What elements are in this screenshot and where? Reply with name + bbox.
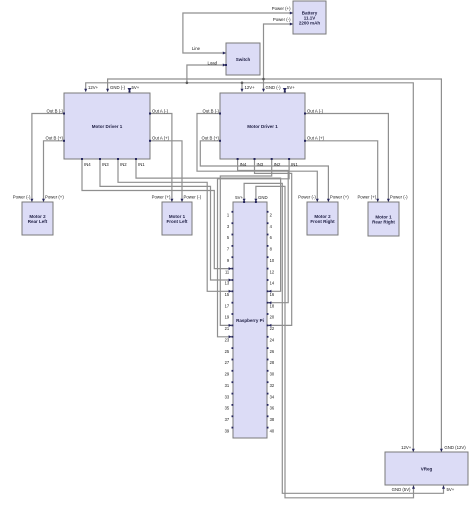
pin driver1 IN at x=118 [117, 158, 119, 160]
pin Pi 38 [267, 415, 269, 417]
svg-text:5V+: 5V+ [235, 195, 243, 200]
voltage regulator VReg [385, 452, 468, 485]
svg-text:34: 34 [270, 394, 275, 399]
svg-text:19: 19 [225, 315, 230, 320]
pin Pi 15 [232, 290, 234, 292]
motor M1 Front Left [162, 202, 192, 235]
pin driver2 Out A (-) [304, 113, 306, 115]
svg-text:22: 22 [270, 326, 275, 331]
motor driver U1 (left) [64, 93, 150, 159]
svg-text:24: 24 [270, 338, 275, 343]
wire motor driver 2 Out B (+) to Motor 2 Front Right Power (+) [200, 141, 330, 202]
pin driver1 Out B (-) [63, 113, 65, 115]
wire motor driver 2 Out B (-) to Motor 2 Front Right Power (-) [197, 114, 319, 203]
svg-text:Motor Driver 1: Motor Driver 1 [247, 124, 278, 129]
svg-text:35: 35 [225, 406, 230, 411]
svg-text:12V+: 12V+ [245, 85, 256, 90]
svg-text:25: 25 [225, 349, 230, 354]
motor M1 Rear Right [368, 202, 399, 236]
pin Pi 34 [267, 393, 269, 395]
pin Pi 8 [267, 245, 269, 247]
pin Pi 36 [267, 404, 269, 406]
pin driver1 Out A (-) [149, 113, 151, 115]
svg-text:38: 38 [270, 417, 275, 422]
svg-text:Front Left: Front Left [167, 219, 188, 224]
pin Pi 33 [232, 393, 234, 395]
svg-text:Switch: Switch [236, 57, 251, 62]
pin Pi 25 [232, 347, 234, 349]
svg-text:Motor Driver 1: Motor Driver 1 [92, 124, 123, 129]
pin Pi 19 [232, 313, 234, 315]
svg-text:30: 30 [270, 372, 275, 377]
pin Pi 40 [267, 427, 269, 429]
svg-text:Power (-): Power (-) [298, 195, 316, 200]
wire motor driver 1 IN3 to Pi pin 13 [100, 160, 232, 282]
wire motor driver 2 Out A (-) to Motor 1 Rear Right Power (-) [305, 114, 390, 203]
wire 12V bus riser to motor driver 2 12V+ [241, 83, 244, 92]
pin Pi 21 [232, 325, 234, 327]
motor M2 Front Right [307, 202, 338, 235]
svg-text:Line: Line [192, 46, 201, 51]
pin driver1 Out A (+) [149, 140, 151, 142]
svg-text:33: 33 [225, 394, 230, 399]
svg-text:GND (5V): GND (5V) [392, 487, 411, 492]
pin Pi 17 [232, 302, 234, 304]
pin Pi 35 [232, 404, 234, 406]
pin driver2 IN at x=271.7 [271, 158, 273, 160]
wire VReg GND (5V) to Pi GND [254, 186, 415, 497]
svg-text:13: 13 [225, 281, 230, 286]
pin Pi 10 [267, 256, 269, 258]
pin Pi 14 [267, 279, 269, 281]
svg-text:26: 26 [270, 349, 275, 354]
svg-text:GND (-): GND (-) [266, 85, 282, 90]
svg-text:31: 31 [225, 383, 230, 388]
wire battery Power (-) to motor driver 2 GND [262, 23, 293, 93]
motor driver U2 (right) [220, 93, 305, 159]
svg-text:Power (-): Power (-) [184, 195, 202, 200]
svg-text:Power (+): Power (+) [330, 195, 349, 200]
svg-text:12: 12 [270, 269, 275, 274]
wire motor driver 2 IN2 to Pi pin 21 [220, 160, 271, 327]
svg-text:16: 16 [270, 292, 275, 297]
Raspberry Pi U3 [233, 202, 267, 438]
wire motor driver 2 IN3 to Pi pin 22 [255, 160, 292, 327]
svg-text:15: 15 [225, 292, 230, 297]
svg-text:Out B (-): Out B (-) [47, 108, 64, 113]
wire motor driver 1 Out B (-) to Motor 2 Rear Left Power (-) [30, 114, 64, 203]
svg-text:Power (-): Power (-) [390, 195, 408, 200]
svg-text:39: 39 [225, 428, 230, 433]
svg-text:11: 11 [225, 269, 230, 274]
pin Pi 1 [232, 211, 234, 213]
wire motor driver 2 IN1 to Pi pin 23 [218, 160, 290, 339]
wire motor driver 1 Out A (+) to Motor 1 Front Left Power (-) [150, 141, 184, 202]
pin driver1 IN at x=82 [81, 158, 83, 160]
wire switch Load to 12V bus [187, 64, 226, 83]
pin Pi 2 [267, 211, 269, 213]
svg-text:12V+: 12V+ [401, 445, 412, 450]
svg-text:IN1: IN1 [291, 162, 298, 167]
svg-text:Power (-): Power (-) [273, 17, 291, 22]
pin Pi 7 [232, 245, 234, 247]
wire VReg 5V+ to Pi 5V+ [243, 183, 445, 493]
wire GND bus from motor driver 1 GND to VReg GND (12V) [106, 79, 443, 452]
pin Pi 31 [232, 381, 234, 383]
svg-text:5V+: 5V+ [447, 487, 455, 492]
svg-text:Out A (-): Out A (-) [307, 108, 324, 113]
pin Pi 11 [232, 268, 234, 270]
svg-text:32: 32 [270, 383, 275, 388]
pin driver2 IN at x=289.1 [288, 158, 290, 160]
pin Pi 4 [267, 222, 269, 224]
pin Pi 27 [232, 359, 234, 361]
pin Pi 20 [267, 313, 269, 315]
svg-text:Power (+): Power (+) [272, 6, 291, 11]
pin Pi GND [255, 201, 257, 203]
pin driver1 IN at x=100 [99, 158, 101, 160]
svg-text:IN3: IN3 [102, 162, 109, 167]
svg-text:36: 36 [270, 406, 275, 411]
pin Pi 5V+ [243, 201, 245, 203]
svg-text:GND (12V): GND (12V) [444, 445, 466, 450]
pin Pi 5 [232, 234, 234, 236]
pin driver2 IN at x=237.6 [237, 158, 239, 160]
svg-text:Power (+): Power (+) [45, 195, 64, 200]
pin Pi 9 [232, 256, 234, 258]
wire motor driver 1 IN2 to Pi pin 15 [118, 160, 232, 293]
svg-text:GND (-): GND (-) [110, 85, 126, 90]
svg-text:28: 28 [270, 360, 275, 365]
svg-text:Power (+): Power (+) [357, 195, 376, 200]
svg-text:IN4: IN4 [84, 162, 91, 167]
battery B1 11.1V 2200 mAh [293, 1, 326, 34]
svg-text:40: 40 [270, 428, 275, 433]
junction GND bus / battery minus [262, 78, 265, 81]
svg-text:Power (-): Power (-) [13, 195, 31, 200]
pin Pi 12 [267, 268, 269, 270]
svg-text:5V+: 5V+ [287, 85, 295, 90]
svg-text:Raspberry Pi: Raspberry Pi [236, 318, 264, 323]
pin Pi 22 [267, 325, 269, 327]
wire motor driver 2 Out A (+) to Motor 1 Rear Right Power (+) [305, 141, 379, 202]
pin driver1 Out B (+) [63, 140, 65, 142]
svg-text:Out A (+): Out A (+) [307, 136, 325, 141]
pin Pi 29 [232, 370, 234, 372]
svg-text:GND: GND [258, 195, 268, 200]
svg-text:IN4: IN4 [240, 162, 247, 167]
wire motor driver 1 Out B (+) to Motor 2 Rear Left Power (+) [42, 141, 64, 202]
pin Pi 18 [267, 302, 269, 304]
svg-text:Load: Load [207, 60, 217, 65]
pin Pi 37 [232, 415, 234, 417]
svg-text:Out A (-): Out A (-) [152, 108, 169, 113]
svg-text:IN2: IN2 [120, 162, 127, 167]
pin Pi 3 [232, 222, 234, 224]
pin Pi 6 [267, 234, 269, 236]
svg-text:37: 37 [225, 417, 230, 422]
svg-text:Out A (+): Out A (+) [152, 136, 170, 141]
svg-text:21: 21 [225, 326, 230, 331]
svg-text:IN3: IN3 [257, 162, 264, 167]
svg-text:23: 23 [225, 338, 230, 343]
svg-text:29: 29 [225, 372, 230, 377]
svg-text:27: 27 [225, 360, 230, 365]
svg-text:18: 18 [270, 303, 275, 308]
svg-text:Rear Left: Rear Left [28, 219, 48, 224]
pin driver1 5V+ mark [129, 91, 131, 93]
junction 12V bus / driver 2 riser [241, 82, 244, 85]
pin Pi 26 [267, 347, 269, 349]
pin switch Load [225, 64, 227, 66]
svg-text:Power (+): Power (+) [152, 195, 171, 200]
svg-text:Out B (-): Out B (-) [203, 108, 220, 113]
pin driver2 Out B (+) [219, 140, 221, 142]
svg-text:17: 17 [225, 303, 230, 308]
pin Pi 16 [267, 290, 269, 292]
pin Pi 28 [267, 359, 269, 361]
pin Pi 30 [267, 370, 269, 372]
pin Pi 32 [267, 381, 269, 383]
svg-text:10: 10 [270, 258, 275, 263]
pin Pi 24 [267, 336, 269, 338]
svg-text:IN2: IN2 [274, 162, 281, 167]
pin driver2 Out B (-) [219, 113, 221, 115]
svg-text:IN1: IN1 [138, 162, 145, 167]
switch S1 [226, 43, 260, 75]
pin Pi 13 [232, 279, 234, 281]
motor M2 Rear Left [22, 202, 53, 235]
pin driver2 5V+ mark [284, 91, 286, 93]
svg-text:20: 20 [270, 315, 275, 320]
wire motor driver 1 Out A (-) to Motor 1 Front Left Power (+) [150, 114, 173, 203]
svg-text:14: 14 [270, 281, 275, 286]
pin Pi 23 [232, 336, 234, 338]
wire motor driver 1 IN4 to Pi pin 11 [82, 160, 232, 271]
wire motor driver 1 IN1 to Pi pin 16 [136, 160, 281, 293]
junction 12V bus / Load [186, 82, 189, 85]
svg-text:Out B (+): Out B (+) [45, 136, 63, 141]
svg-text:5V+: 5V+ [132, 85, 140, 90]
pin driver2 Out A (+) [304, 140, 306, 142]
wire motor driver 2 IN4 to Pi pin 18 [238, 160, 289, 305]
svg-text:VReg: VReg [421, 466, 433, 471]
pin driver1 IN at x=136 [135, 158, 137, 160]
svg-text:Rear Right: Rear Right [372, 219, 395, 224]
pin driver2 IN at x=254.5 [254, 158, 256, 160]
wire 12V bus from motor driver 1 12V+ to VReg 12V+ [84, 83, 415, 452]
pin Pi 39 [232, 427, 234, 429]
wire battery Power (+) to switch Line [183, 12, 293, 55]
svg-text:Out B (+): Out B (+) [201, 136, 219, 141]
svg-text:Front Right: Front Right [310, 219, 335, 224]
svg-text:12V+: 12V+ [88, 85, 99, 90]
svg-text:2200 mAh: 2200 mAh [299, 20, 321, 25]
